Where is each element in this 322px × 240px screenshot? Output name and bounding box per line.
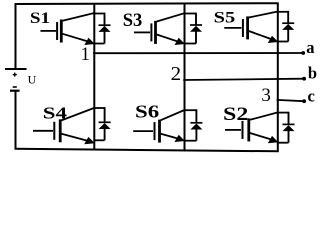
wire: top DC rail xyxy=(15,2,279,5)
svg-text:c: c xyxy=(308,86,315,105)
svg-text:S5: S5 xyxy=(214,10,236,27)
svg-text:a: a xyxy=(306,38,314,57)
svg-text:b: b xyxy=(308,63,317,82)
svg-text:S2: S2 xyxy=(223,104,248,125)
transistor S3 xyxy=(134,13,185,45)
svg-text:3: 3 xyxy=(261,85,271,106)
terminal dot b xyxy=(302,77,306,81)
wire: leg 2 vertical (phase b leg) xyxy=(184,3,186,151)
svg-text:U: U xyxy=(28,73,37,87)
label a xyxy=(306,38,314,57)
svg-text:S3: S3 xyxy=(123,10,143,31)
wire: phase c output line xyxy=(277,100,304,101)
wire: phase a output line xyxy=(93,52,304,54)
transistor S6 xyxy=(133,110,185,143)
svg-text:2: 2 xyxy=(171,64,182,85)
transistor S1 xyxy=(41,13,95,45)
transistor S2 xyxy=(225,112,278,143)
terminal dot a xyxy=(301,51,305,55)
wire: leg 3 vertical (phase c leg) xyxy=(277,3,279,152)
label S4 xyxy=(43,103,68,122)
transistor S4 xyxy=(33,108,95,144)
label S6 xyxy=(135,101,160,121)
diode D5 (antiparallel to S5) xyxy=(278,11,294,42)
transistor S5 xyxy=(224,12,278,44)
node 3 label xyxy=(261,85,271,106)
diode D6 (antiparallel to S6) xyxy=(185,109,203,140)
label c xyxy=(308,86,315,105)
node 1 label xyxy=(81,45,90,65)
wire: bottom DC rail xyxy=(15,149,279,152)
diode D4 (antiparallel to S4) xyxy=(94,107,110,140)
battery minus sign xyxy=(13,86,17,88)
node 2 label xyxy=(171,64,182,85)
svg-text:S1: S1 xyxy=(30,10,50,27)
label S2 xyxy=(223,104,248,125)
svg-text:S6: S6 xyxy=(135,101,160,121)
label b xyxy=(308,63,317,82)
diode D2 (antiparallel to S2) xyxy=(278,112,295,143)
label S1 xyxy=(30,10,50,27)
diode D1 (antiparallel to S1) xyxy=(94,13,110,44)
wire: left vertical lower (battery - to bottom rail) xyxy=(15,91,17,150)
battery plus sign xyxy=(13,73,17,77)
terminal dot c xyxy=(302,99,306,103)
wire: left vertical upper (rail to battery +) xyxy=(15,4,17,69)
wire: leg 1 vertical (phase a leg) xyxy=(93,3,95,150)
battery negative plate xyxy=(10,90,20,92)
label U xyxy=(28,73,37,87)
wire: phase b output line xyxy=(183,79,304,80)
svg-text:1: 1 xyxy=(81,45,90,65)
diode D3 (antiparallel to S3) xyxy=(185,13,203,44)
label S5 xyxy=(214,10,236,27)
battery U positive plate xyxy=(5,68,27,70)
label S3 xyxy=(123,10,143,31)
